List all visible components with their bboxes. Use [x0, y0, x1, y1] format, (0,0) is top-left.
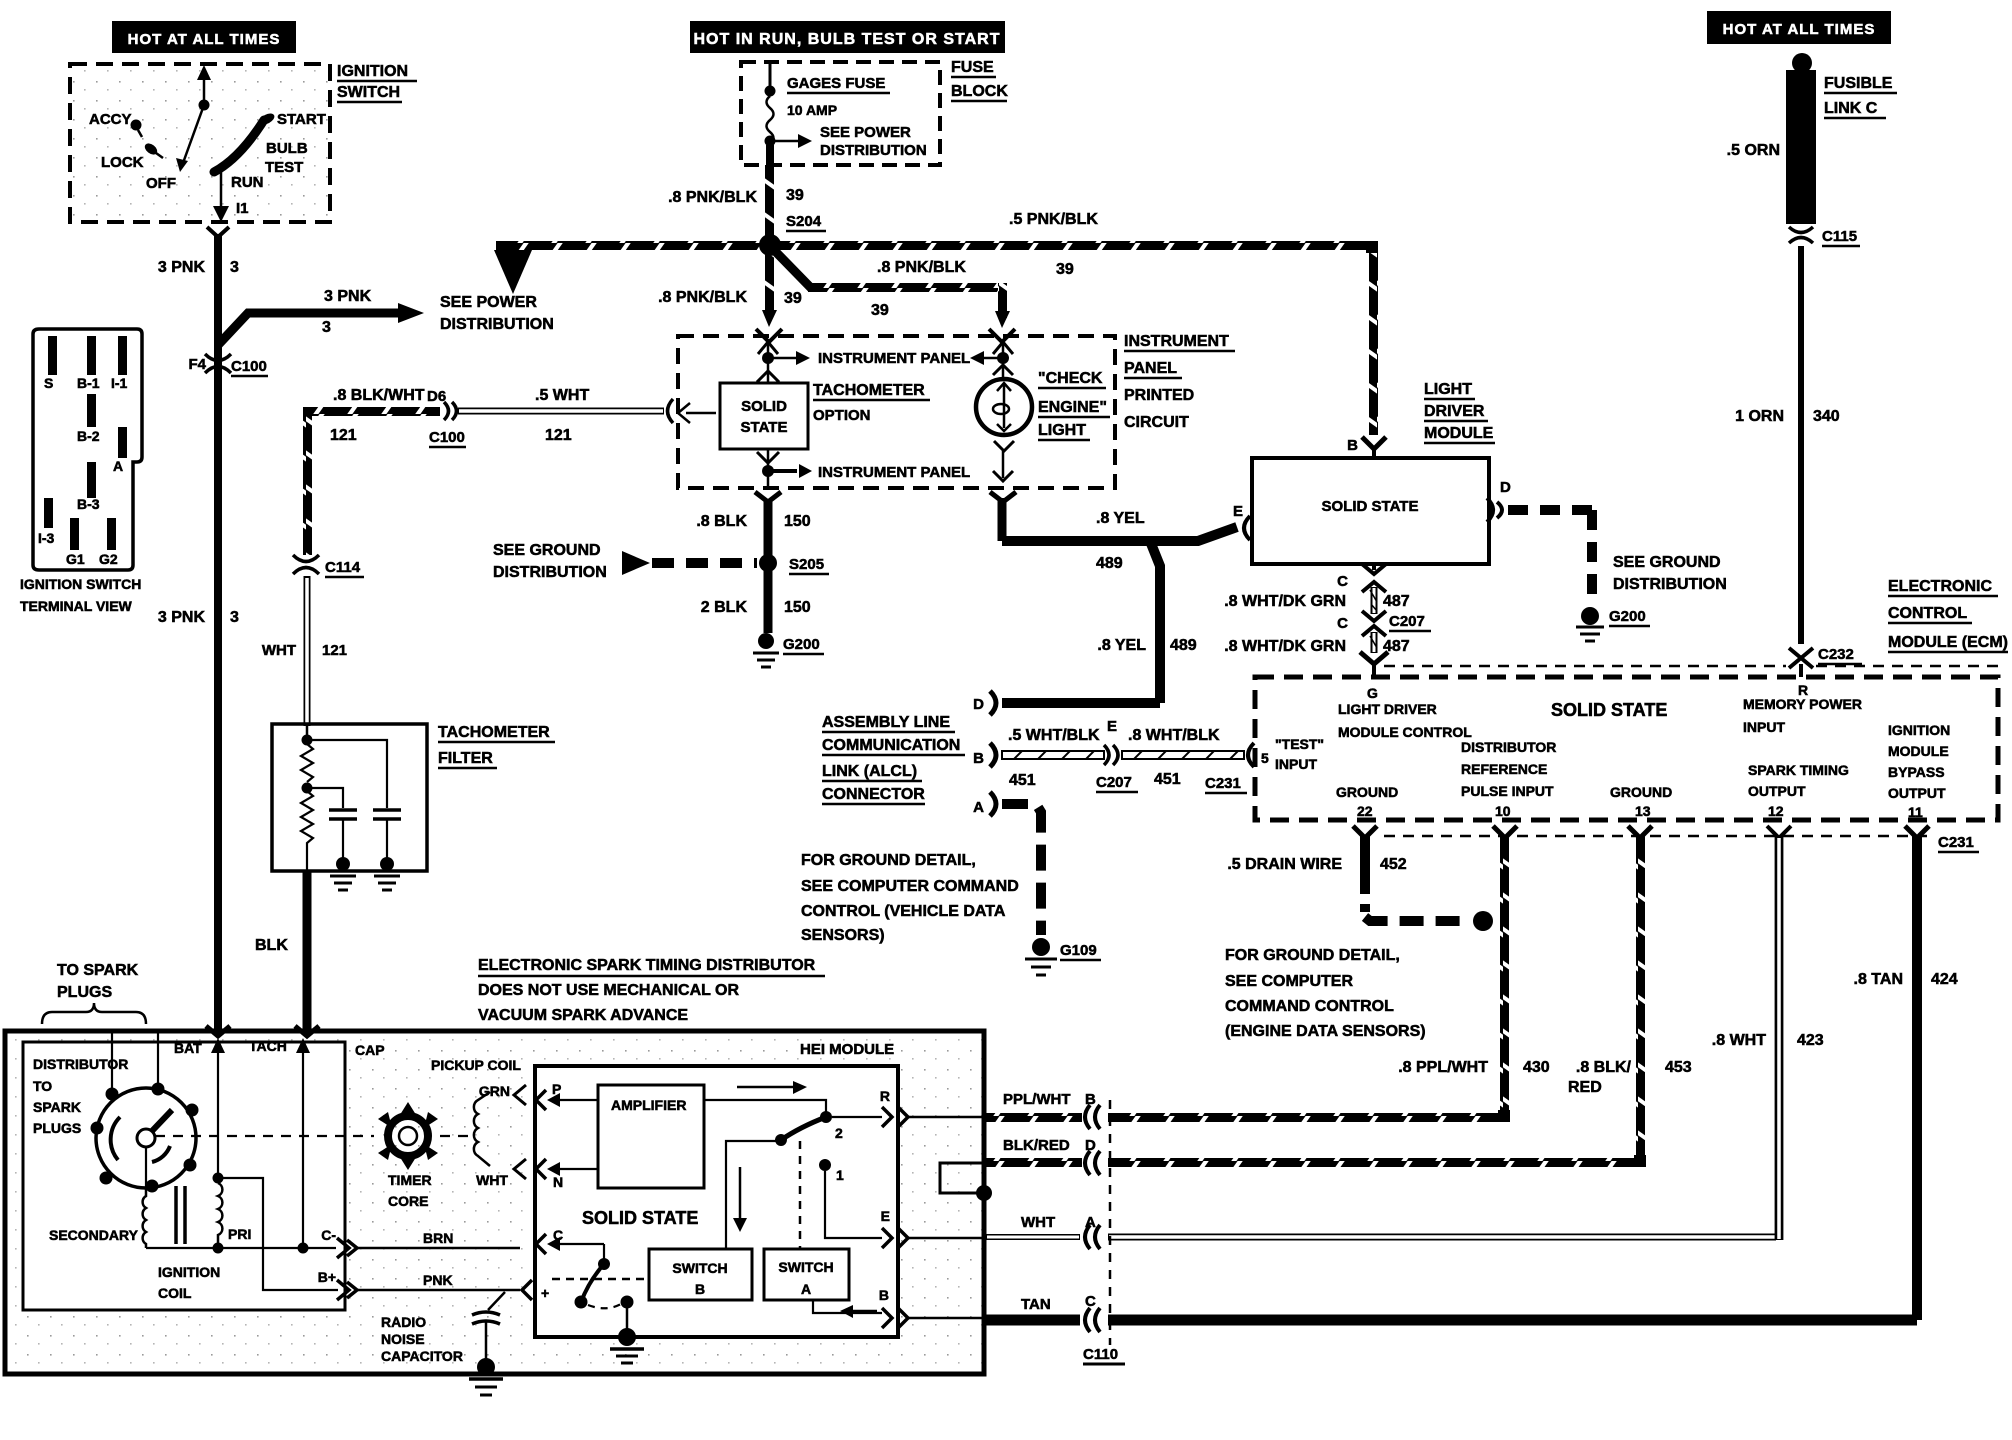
- svg-text:12: 12: [1768, 803, 1784, 819]
- ignition switch dashed box: [70, 64, 330, 222]
- svg-text:C: C: [1337, 615, 1348, 632]
- svg-text:489: 489: [1170, 637, 1197, 654]
- svg-text:3: 3: [230, 609, 239, 626]
- junction S205: [759, 554, 777, 572]
- svg-text:B-3: B-3: [77, 496, 100, 512]
- svg-text:SWITCH: SWITCH: [672, 1260, 727, 1276]
- svg-text:C207: C207: [1096, 774, 1132, 791]
- distributor outer box: [5, 1031, 984, 1374]
- svg-text:.8 TAN: .8 TAN: [1854, 971, 1903, 988]
- svg-text:1 ORN: 1 ORN: [1735, 408, 1784, 425]
- wire .8 WHT 423 double: [1776, 836, 1783, 1240]
- svg-text:BLOCK: BLOCK: [951, 83, 1008, 100]
- svg-text:FUSE: FUSE: [951, 59, 994, 76]
- svg-text:A: A: [973, 799, 984, 816]
- svg-text:150: 150: [784, 513, 811, 530]
- svg-text:C: C: [1337, 573, 1348, 590]
- connector C207 (ALCL): [1104, 745, 1118, 765]
- arrow to SEE POWER DISTRIBUTION: [770, 140, 800, 143]
- svg-text:.8 BLK/WHT: .8 BLK/WHT: [333, 387, 425, 404]
- header label HOT IN RUN, BULB TEST OR START: [690, 21, 1005, 53]
- svg-text:.8 WHT: .8 WHT: [1712, 1032, 1766, 1049]
- svg-text:FUSIBLE: FUSIBLE: [1824, 75, 1893, 92]
- svg-text:340: 340: [1813, 408, 1840, 425]
- pin B-1: [87, 336, 96, 375]
- rotor: [137, 1129, 155, 1147]
- svg-text:121: 121: [330, 427, 357, 444]
- pickup coil connectors: [514, 1085, 526, 1105]
- svg-text:.8 BLK: .8 BLK: [696, 513, 747, 530]
- svg-text:E: E: [1233, 503, 1243, 520]
- svg-text:PNK: PNK: [423, 1272, 453, 1288]
- wire 1 ORN 340: [1798, 246, 1804, 644]
- svg-text:BLK/RED: BLK/RED: [1003, 1137, 1070, 1154]
- wire TACH junction to C pin: [303, 1247, 336, 1249]
- connector at instrument panel left: [668, 399, 674, 423]
- pivot to switch B: [726, 1141, 778, 1249]
- wire PPL/WHT distributor to C110: [986, 1113, 1082, 1122]
- svg-text:DOES NOT USE MECHANICAL OR: DOES NOT USE MECHANICAL OR: [478, 982, 740, 999]
- pin I-1: [118, 336, 127, 375]
- pin 13 chevron: [1628, 826, 1652, 838]
- timer core star: [378, 1102, 438, 1170]
- wire 2 BLK 150: [764, 570, 773, 633]
- svg-text:"CHECK: "CHECK: [1038, 370, 1103, 387]
- svg-text:LINK C: LINK C: [1824, 100, 1878, 117]
- arrow down from RUN to I1: [220, 168, 223, 212]
- svg-text:WHT: WHT: [1021, 1214, 1055, 1231]
- svg-text:COMMUNICATION: COMMUNICATION: [822, 737, 960, 754]
- fusible link C: [1792, 53, 1812, 73]
- svg-text:SOLID STATE: SOLID STATE: [1322, 498, 1419, 515]
- distributor cap circle: [96, 1088, 196, 1188]
- node on pole: [199, 100, 210, 111]
- svg-text:453: 453: [1665, 1059, 1692, 1076]
- pin 10 chevron: [1493, 826, 1517, 838]
- wire .8 YEL 489 check engine to E: [998, 498, 1007, 541]
- svg-text:121: 121: [322, 642, 347, 659]
- instrument panel printed circuit dashed box: [678, 336, 1115, 488]
- wire hatched vertical S204 down to instrument panel .8 PNK/BLK 39: [765, 245, 774, 315]
- svg-text:LINK (ALCL): LINK (ALCL): [822, 763, 917, 780]
- dashed wire D to G200 right: [1508, 505, 1592, 515]
- svg-text:C115: C115: [1822, 228, 1857, 245]
- coil core bars: [174, 1186, 178, 1244]
- svg-text:DISTRIBUTOR: DISTRIBUTOR: [33, 1056, 128, 1072]
- switch blade 2: [781, 1117, 826, 1140]
- wire .8 BLK 150: [764, 500, 773, 556]
- wire WHT 121 double to filter: [304, 576, 311, 726]
- svg-text:.8 WHT/DK GRN: .8 WHT/DK GRN: [1224, 593, 1346, 610]
- svg-text:I-1: I-1: [111, 375, 128, 391]
- svg-text:SECONDARY: SECONDARY: [49, 1227, 139, 1243]
- svg-text:A: A: [801, 1281, 811, 1297]
- wire to capacitor C2: [307, 740, 387, 808]
- svg-text:OUTPUT: OUTPUT: [1888, 785, 1946, 801]
- svg-text:10: 10: [1495, 803, 1511, 819]
- svg-text:C231: C231: [1938, 834, 1974, 851]
- ground G109: [1032, 938, 1050, 956]
- wire fuse to S204 .8 PNK/BLK 39: [766, 145, 774, 167]
- arrowhead into instrument panel at tach: [762, 310, 777, 327]
- ECM dashed box: [1255, 677, 1998, 820]
- svg-text:HOT AT ALL TIMES: HOT AT ALL TIMES: [1723, 21, 1876, 38]
- svg-text:A: A: [113, 458, 123, 474]
- svg-text:WHT: WHT: [262, 642, 296, 659]
- svg-text:.5 DRAIN WIRE: .5 DRAIN WIRE: [1227, 856, 1342, 873]
- svg-text:E: E: [1107, 718, 1117, 735]
- light driver module box: [1252, 458, 1489, 564]
- svg-text:.8 PNK/BLK: .8 PNK/BLK: [877, 259, 966, 276]
- wire hatched vertical into check engine light: [998, 283, 1007, 318]
- wire to capacitor C1: [307, 788, 343, 808]
- fuse block dashed box: [741, 62, 940, 165]
- svg-text:INSTRUMENT PANEL: INSTRUMENT PANEL: [818, 350, 970, 367]
- ECM connector dashed line C231: [1384, 835, 1931, 838]
- svg-text:TACHOMETER: TACHOMETER: [813, 382, 925, 399]
- svg-text:RED: RED: [1568, 1079, 1602, 1096]
- ground inside HEI: [626, 1308, 629, 1331]
- svg-text:.8 PNK/BLK: .8 PNK/BLK: [668, 189, 757, 206]
- svg-text:121: 121: [545, 427, 572, 444]
- svg-text:GRN: GRN: [479, 1083, 510, 1099]
- svg-text:REFERENCE: REFERENCE: [1461, 761, 1547, 777]
- svg-text:FOR GROUND DETAIL,: FOR GROUND DETAIL,: [801, 852, 976, 869]
- connector out bottom tach: [755, 492, 781, 502]
- svg-text:C110: C110: [1083, 1346, 1118, 1363]
- wire 3 PNK branch to SEE POWER DISTRIBUTION: [218, 313, 398, 345]
- svg-text:.5 ORN: .5 ORN: [1727, 142, 1780, 159]
- svg-text:IGNITION: IGNITION: [158, 1264, 220, 1280]
- connector out bottom check engine: [990, 492, 1016, 502]
- svg-text:BLK: BLK: [255, 937, 288, 954]
- svg-text:G2: G2: [99, 551, 118, 567]
- svg-text:C207: C207: [1389, 613, 1425, 630]
- svg-text:GROUND: GROUND: [1336, 784, 1398, 800]
- svg-text:.5 WHT/BLK: .5 WHT/BLK: [1008, 727, 1100, 744]
- svg-text:TIMER: TIMER: [388, 1172, 432, 1188]
- svg-text:B-2: B-2: [77, 428, 100, 444]
- pin G1: [70, 518, 79, 550]
- arrowhead pointing down-left at SEE POWER DISTRIBUTION: [494, 250, 532, 294]
- svg-text:B: B: [695, 1281, 705, 1297]
- svg-text:IGNITION SWITCH: IGNITION SWITCH: [20, 576, 141, 592]
- amplifier box: [598, 1085, 704, 1188]
- svg-text:C: C: [1085, 1293, 1096, 1310]
- connector chevron below ignition switch: [207, 227, 229, 237]
- svg-text:B: B: [973, 750, 984, 767]
- svg-text:LIGHT: LIGHT: [1424, 381, 1472, 398]
- svg-text:SEE COMPUTER COMMAND: SEE COMPUTER COMMAND: [801, 878, 1019, 895]
- svg-text:DISTRIBUTION: DISTRIBUTION: [1613, 576, 1727, 593]
- svg-text:HOT IN RUN, BULB TEST OR START: HOT IN RUN, BULB TEST OR START: [693, 31, 1000, 48]
- svg-text:10 AMP: 10 AMP: [787, 102, 837, 118]
- wire hatched horizontal branch to check engine light: [808, 283, 1004, 292]
- dashed arc to ground contact: [588, 1304, 621, 1308]
- connector C115: [1789, 227, 1813, 243]
- svg-text:CONTROL: CONTROL: [1888, 605, 1967, 622]
- svg-text:MODULE: MODULE: [1424, 425, 1494, 442]
- svg-text:G200: G200: [783, 636, 820, 653]
- switch B box: [649, 1249, 752, 1300]
- svg-text:SEE GROUND: SEE GROUND: [1613, 554, 1721, 571]
- svg-text:S204: S204: [786, 213, 822, 230]
- header label HOT AT ALL TIMES (left): [112, 21, 296, 53]
- svg-text:C100: C100: [231, 358, 267, 375]
- svg-text:HEI MODULE: HEI MODULE: [800, 1041, 894, 1058]
- svg-text:3: 3: [230, 259, 239, 276]
- svg-text:MODULE: MODULE: [1888, 743, 1949, 759]
- svg-text:OFF: OFF: [146, 175, 176, 192]
- wire BRN: [357, 1247, 520, 1250]
- wire .5 DRAIN WIRE 452: [1360, 836, 1370, 878]
- svg-text:TO: TO: [33, 1078, 52, 1094]
- ECM connector dashed line C232: [1384, 665, 1786, 668]
- svg-text:HOT AT ALL TIMES: HOT AT ALL TIMES: [128, 31, 281, 48]
- svg-text:DISTRIBUTION: DISTRIBUTION: [440, 316, 554, 333]
- svg-text:11: 11: [1908, 804, 1923, 820]
- switch A to pin B: [813, 1300, 882, 1313]
- svg-text:BYPASS: BYPASS: [1888, 764, 1945, 780]
- svg-text:SEE GROUND: SEE GROUND: [493, 542, 601, 559]
- svg-text:E: E: [881, 1208, 890, 1224]
- svg-text:SPARK: SPARK: [33, 1099, 81, 1115]
- capacitor C2: [373, 808, 401, 812]
- svg-text:OUTPUT: OUTPUT: [1748, 783, 1806, 799]
- svg-text:MEMORY POWER: MEMORY POWER: [1743, 696, 1862, 712]
- svg-text:SWITCH: SWITCH: [778, 1259, 833, 1275]
- svg-text:ASSEMBLY LINE: ASSEMBLY LINE: [822, 714, 950, 731]
- pin 22 chevron: [1353, 826, 1377, 838]
- tachometer solid state box: [720, 383, 808, 449]
- HEI module box: [535, 1066, 898, 1337]
- flow arrow: [737, 1086, 795, 1089]
- svg-text:452: 452: [1380, 856, 1407, 873]
- svg-text:PRINTED: PRINTED: [1124, 387, 1194, 404]
- svg-text:C231: C231: [1205, 775, 1241, 792]
- svg-text:TO SPARK: TO SPARK: [57, 962, 139, 979]
- svg-text:RADIO: RADIO: [381, 1314, 426, 1330]
- svg-text:13: 13: [1635, 803, 1651, 819]
- svg-text:2: 2: [835, 1125, 843, 1141]
- svg-text:.8 WHT/BLK: .8 WHT/BLK: [1128, 727, 1220, 744]
- svg-text:MODULE (ECM): MODULE (ECM): [1888, 634, 2008, 651]
- svg-text:G: G: [1367, 685, 1378, 701]
- svg-text:AMPLIFIER: AMPLIFIER: [611, 1097, 686, 1113]
- svg-text:39: 39: [871, 302, 889, 319]
- svg-text:GAGES FUSE: GAGES FUSE: [787, 75, 885, 92]
- svg-text:.8 YEL: .8 YEL: [1096, 510, 1145, 527]
- svg-text:CONTROL (VEHICLE DATA: CONTROL (VEHICLE DATA: [801, 903, 1006, 920]
- wire .5 WHT double line to tachometer: [458, 408, 664, 415]
- svg-text:D6: D6: [427, 388, 446, 405]
- svg-text:PLUGS: PLUGS: [33, 1120, 81, 1136]
- svg-text:22: 22: [1357, 803, 1373, 819]
- wire hatched horizontal from S204 to right corner .5 PNK/BLK 39: [770, 241, 1378, 250]
- connector C231 at ECM: [1248, 743, 1254, 767]
- svg-text:INSTRUMENT PANEL: INSTRUMENT PANEL: [818, 464, 970, 481]
- svg-text:PULSE INPUT: PULSE INPUT: [1461, 783, 1554, 799]
- svg-text:S: S: [44, 375, 53, 391]
- svg-text:PANEL: PANEL: [1124, 360, 1177, 377]
- ground under C2: [374, 875, 400, 878]
- wire PNK: [357, 1289, 520, 1292]
- svg-text:START: START: [277, 111, 326, 128]
- ground G200 (center): [758, 633, 774, 649]
- fuse element: [767, 96, 774, 144]
- svg-text:DISTRIBUTION: DISTRIBUTION: [820, 142, 927, 159]
- svg-text:RUN: RUN: [231, 174, 264, 191]
- svg-text:G109: G109: [1060, 942, 1097, 959]
- svg-text:LIGHT: LIGHT: [1038, 422, 1086, 439]
- svg-text:PLUGS: PLUGS: [57, 984, 112, 1001]
- cap contacts: [106, 1088, 119, 1101]
- ignition switch terminal view connector outline: [33, 329, 142, 570]
- svg-text:SEE POWER: SEE POWER: [440, 294, 537, 311]
- svg-text:FOR GROUND DETAIL,: FOR GROUND DETAIL,: [1225, 947, 1400, 964]
- svg-text:PICKUP COIL: PICKUP COIL: [431, 1057, 521, 1073]
- svg-text:R: R: [880, 1088, 890, 1104]
- svg-text:5: 5: [1261, 750, 1269, 766]
- dashed link: [799, 1141, 802, 1249]
- svg-text:BAT: BAT: [174, 1040, 202, 1056]
- amplifier output to switch: [704, 1100, 826, 1112]
- svg-text:PRI: PRI: [228, 1226, 251, 1242]
- svg-text:(ENGINE DATA SENSORS): (ENGINE DATA SENSORS): [1225, 1023, 1426, 1040]
- svg-text:489: 489: [1096, 555, 1123, 572]
- wire hatched diagonal branch from S204: [773, 249, 812, 289]
- svg-text:SENSORS): SENSORS): [801, 927, 885, 944]
- svg-text:.8 BLK/: .8 BLK/: [1576, 1059, 1632, 1076]
- svg-text:F4: F4: [188, 356, 206, 373]
- switch A box: [764, 1249, 849, 1300]
- svg-text:STATE: STATE: [741, 419, 788, 436]
- svg-text:BULB: BULB: [266, 140, 308, 157]
- svg-text:BRN: BRN: [423, 1230, 453, 1246]
- tach bottom lead: [757, 452, 779, 463]
- svg-text:TACH: TACH: [249, 1038, 287, 1054]
- svg-text:C-: C-: [321, 1227, 336, 1243]
- down arrow: [739, 1167, 742, 1220]
- ignition switch pole arrow up: [203, 68, 206, 105]
- wire hatched vertical to light driver module B: [1369, 245, 1378, 435]
- svg-text:3 PNK: 3 PNK: [158, 259, 206, 276]
- switch lever thick arc RUN to START: [214, 120, 264, 172]
- wire BLK/RED distributor to C110: [986, 1158, 1082, 1167]
- svg-text:INPUT: INPUT: [1743, 719, 1785, 735]
- wire .8 BLK/RED 453 hatched: [1636, 836, 1645, 1166]
- svg-text:CAP: CAP: [355, 1042, 385, 1058]
- svg-text:SOLID STATE: SOLID STATE: [1551, 700, 1667, 720]
- svg-text:1: 1: [836, 1167, 844, 1183]
- pin I-3: [44, 498, 53, 528]
- svg-text:B: B: [1347, 437, 1358, 454]
- svg-text:FILTER: FILTER: [438, 750, 493, 767]
- svg-text:MODULE CONTROL: MODULE CONTROL: [1338, 724, 1472, 740]
- svg-text:ACCY: ACCY: [89, 111, 132, 128]
- svg-text:CIRCUIT: CIRCUIT: [1124, 414, 1189, 431]
- svg-text:DISTRIBUTOR: DISTRIBUTOR: [1461, 739, 1556, 755]
- svg-text:INPUT: INPUT: [1275, 756, 1317, 772]
- svg-text:CAPACITOR: CAPACITOR: [381, 1348, 463, 1364]
- svg-text:NOISE: NOISE: [381, 1331, 425, 1347]
- arrow right to INSTRUMENT PANEL: [768, 357, 798, 360]
- svg-text:C114: C114: [325, 559, 361, 576]
- svg-text:I1: I1: [236, 200, 249, 217]
- svg-text:3: 3: [322, 319, 331, 336]
- wire .5 WHT/BLK 451: [1002, 751, 1104, 759]
- pin G2: [107, 518, 116, 550]
- bulb to box bottom: [994, 441, 1014, 451]
- wire 3 PNK vertical to distributor BAT: [214, 234, 222, 1034]
- check engine feed: [1002, 340, 1005, 358]
- resistor R2: [301, 791, 313, 871]
- svg-text:WHT: WHT: [476, 1172, 508, 1188]
- svg-text:2 BLK: 2 BLK: [701, 599, 748, 616]
- svg-text:SWITCH: SWITCH: [337, 84, 400, 101]
- wire into fuse: [769, 62, 772, 91]
- chevron into bulb: [1002, 358, 1005, 381]
- svg-text:PPL/WHT: PPL/WHT: [1003, 1091, 1071, 1108]
- svg-text:.5 WHT: .5 WHT: [535, 387, 589, 404]
- pin S: [48, 336, 57, 375]
- switch wiper to OFF: [183, 105, 204, 163]
- svg-text:.8 WHT/DK GRN: .8 WHT/DK GRN: [1224, 638, 1346, 655]
- pin B-2: [87, 394, 96, 427]
- svg-text:C100: C100: [429, 429, 465, 446]
- svg-text:ELECTRONIC SPARK TIMING DISTRI: ELECTRONIC SPARK TIMING DISTRIBUTOR: [478, 957, 816, 974]
- header label HOT AT ALL TIMES (right): [1707, 11, 1891, 44]
- svg-text:SEE POWER: SEE POWER: [820, 124, 911, 141]
- svg-text:3 PNK: 3 PNK: [324, 288, 372, 305]
- svg-text:LIGHT DRIVER: LIGHT DRIVER: [1338, 701, 1437, 717]
- svg-text:D: D: [973, 696, 984, 713]
- pin 11 chevron: [1905, 826, 1929, 838]
- svg-text:487: 487: [1383, 593, 1410, 610]
- pin B-3: [87, 462, 96, 498]
- node filter top: [306, 724, 309, 744]
- resistor R1: [301, 744, 313, 782]
- svg-text:SPARK TIMING: SPARK TIMING: [1748, 762, 1849, 778]
- wire primary top to B+: [218, 1178, 338, 1290]
- ground G200 (right): [1581, 607, 1599, 625]
- connector C110 dashed line: [1109, 1100, 1112, 1345]
- contact 1: [819, 1159, 831, 1171]
- dashed wire A to G109: [1002, 804, 1041, 935]
- svg-text:COMMAND CONTROL: COMMAND CONTROL: [1225, 998, 1394, 1015]
- svg-text:N: N: [553, 1174, 563, 1190]
- rotor shaft dashed link to timer core: [155, 1135, 374, 1137]
- svg-text:.8 YEL: .8 YEL: [1097, 637, 1146, 654]
- svg-text:TAN: TAN: [1021, 1296, 1051, 1313]
- svg-text:.8 PNK/BLK: .8 PNK/BLK: [658, 289, 747, 306]
- wire .8 PPL/WHT 430 hatched: [1500, 836, 1509, 1118]
- svg-text:.5 PNK/BLK: .5 PNK/BLK: [1009, 211, 1098, 228]
- junction S204: [759, 234, 781, 256]
- svg-text:SOLID: SOLID: [741, 398, 787, 415]
- svg-text:G200: G200: [1609, 608, 1646, 625]
- svg-text:150: 150: [784, 599, 811, 616]
- svg-text:B+: B+: [318, 1269, 336, 1285]
- svg-text:451: 451: [1009, 772, 1036, 789]
- wire BLK filter to distributor TACH: [303, 871, 312, 1034]
- tach feed line with up arrow: [767, 340, 770, 358]
- svg-text:TEST: TEST: [265, 159, 303, 176]
- check engine light bulb: [976, 379, 1032, 435]
- svg-text:TACHOMETER: TACHOMETER: [438, 724, 550, 741]
- svg-text:SEE COMPUTER: SEE COMPUTER: [1225, 973, 1353, 990]
- svg-text:423: 423: [1797, 1032, 1824, 1049]
